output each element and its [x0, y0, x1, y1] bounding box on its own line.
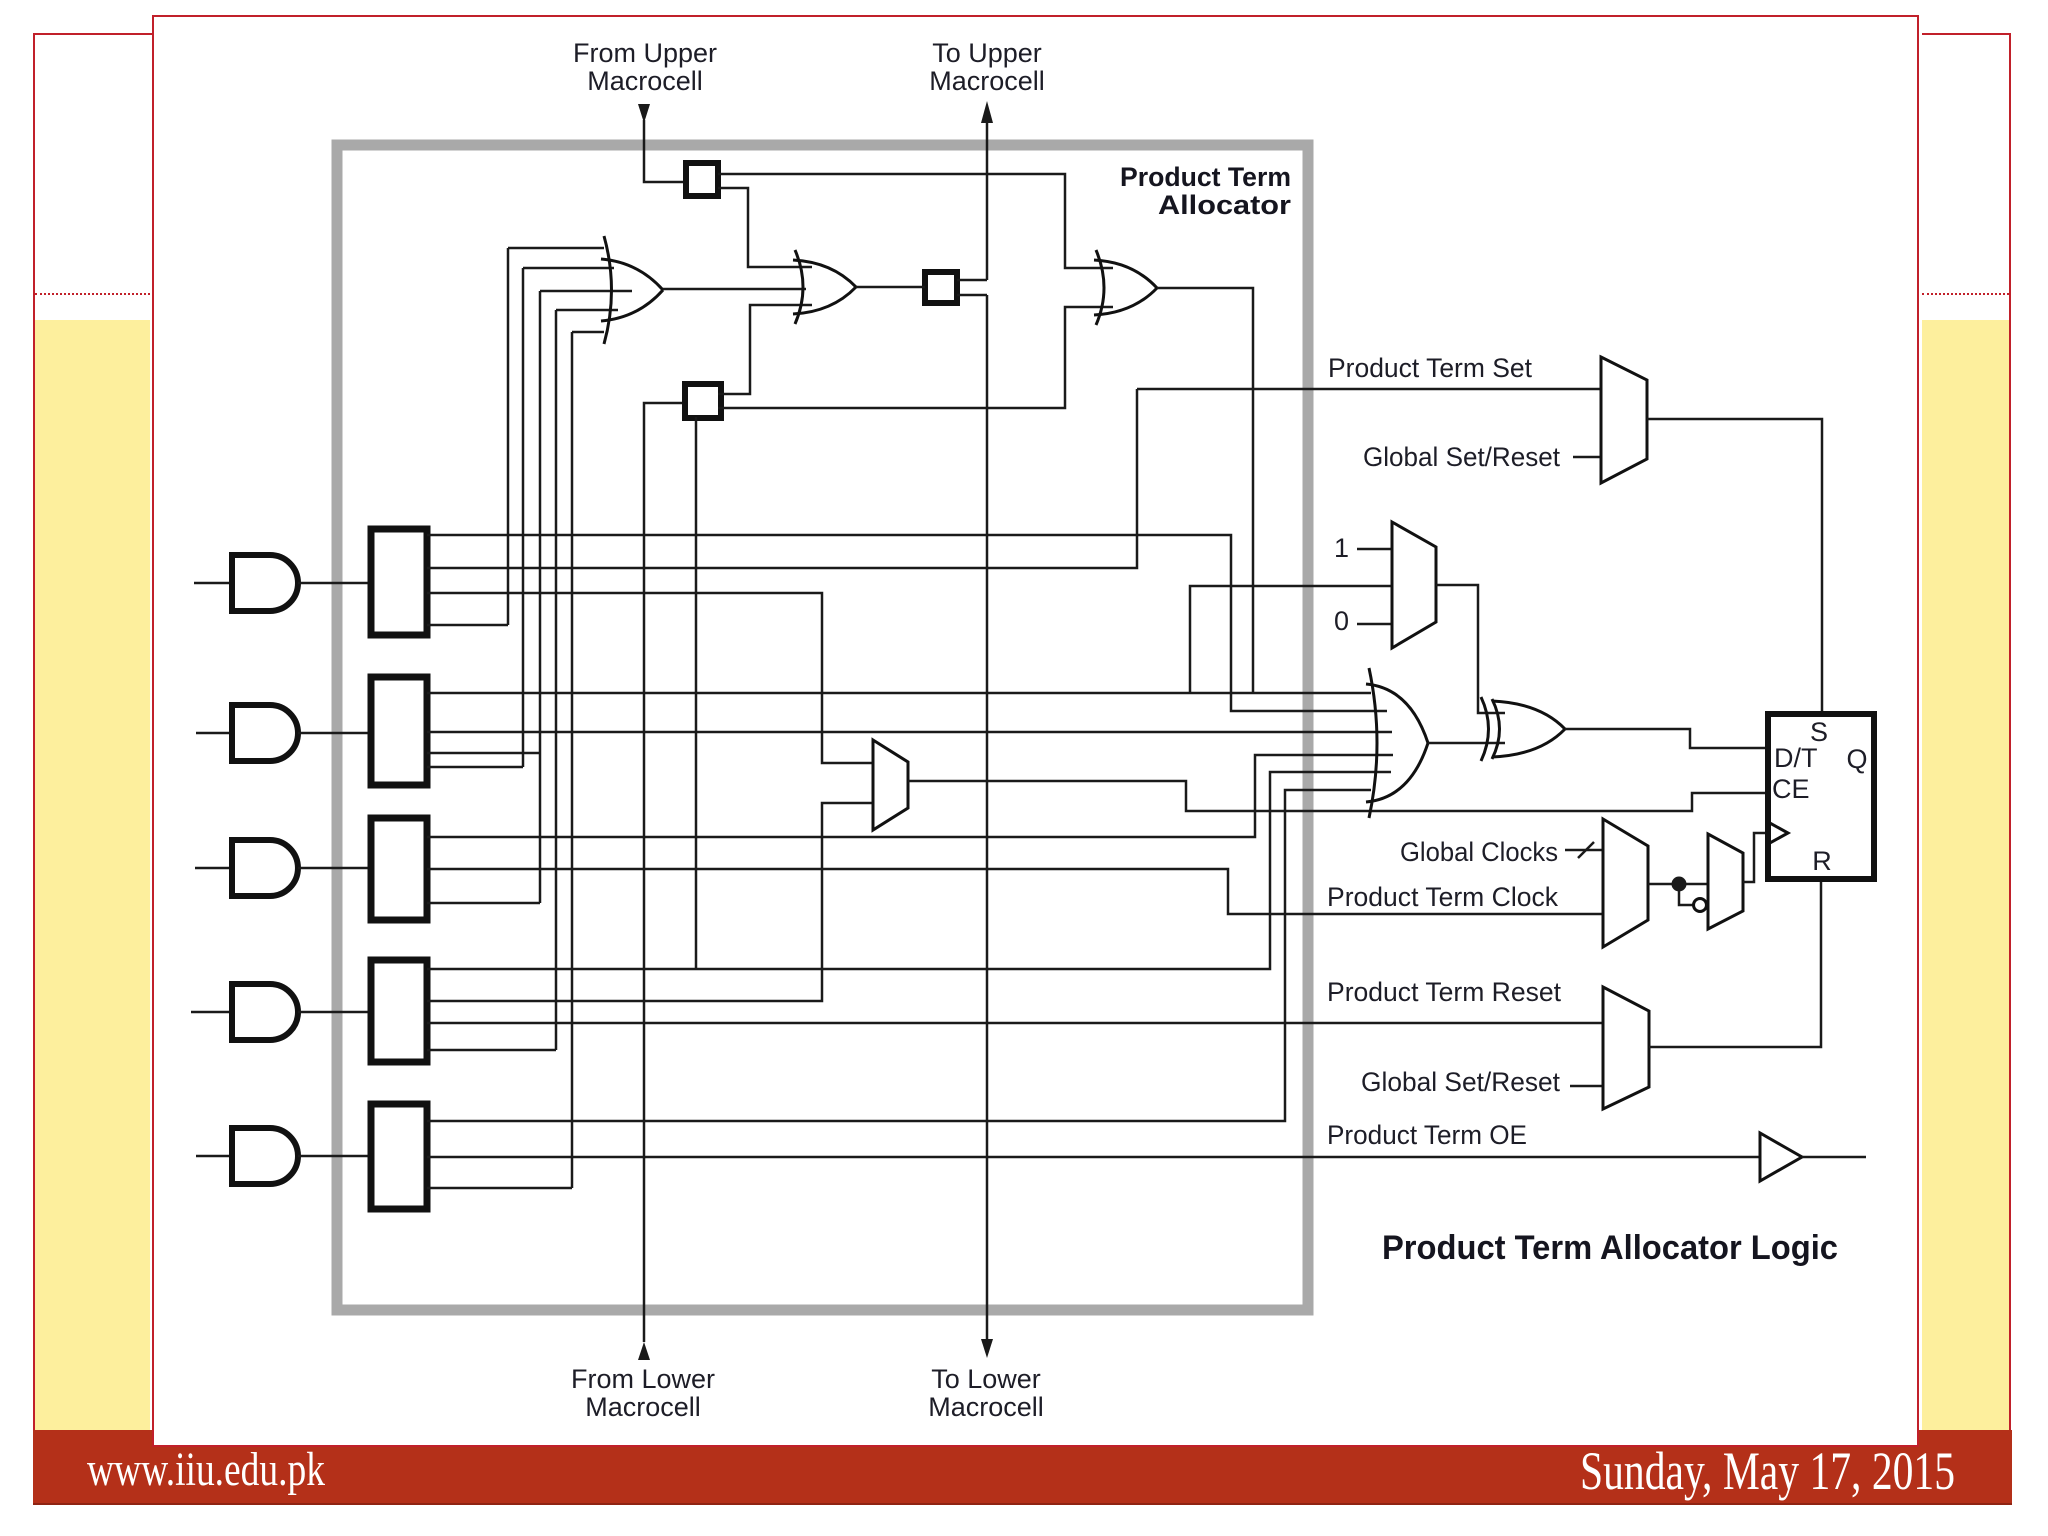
- caption Product Term Allocator Logic: [1382, 1229, 1838, 1267]
- wire OR1 output to OR2: [663, 288, 806, 291]
- mux M2 one-zero mux: [1392, 522, 1436, 648]
- wire A1 to SB1: [298, 582, 371, 585]
- svg-text:From Upper: From Upper: [573, 38, 717, 68]
- wire constant 0 to mux M2: [1357, 623, 1392, 626]
- wire SB1 out4 to bus B1: [427, 624, 508, 627]
- pin label R: [1812, 846, 1832, 876]
- node From Lower Macrocell arrow: [638, 1342, 650, 1360]
- svg-text:R: R: [1812, 846, 1832, 876]
- mux M6 clock polarity mux: [1708, 834, 1743, 929]
- wire M4 output to mux M6: [1648, 883, 1708, 886]
- product term allocator grey box: [337, 145, 1308, 1310]
- wire SB1 out2 to product term set: [427, 389, 1137, 568]
- wire SB4 out3 product term reset: [427, 1022, 1603, 1025]
- svg-text:Macrocell: Macrocell: [928, 1392, 1044, 1422]
- fuse F2: [685, 384, 721, 418]
- wire SB4 out2 to mux M3 bottom input: [427, 803, 873, 1001]
- net label Product Term OE: [1327, 1120, 1527, 1150]
- net label Global Set/Reset upper: [1363, 442, 1560, 472]
- svg-text:To Lower: To Lower: [931, 1364, 1041, 1394]
- svg-text:D/T: D/T: [1774, 743, 1818, 773]
- net label constant 0: [1334, 606, 1349, 636]
- node To Upper Macrocell arrow: [981, 101, 993, 123]
- switchbox SB4: [371, 960, 427, 1062]
- wire M1 output to FF S input: [1647, 419, 1822, 714]
- wire SB5 out2 product term OE: [427, 1156, 1760, 1159]
- svg-text:1: 1: [1334, 533, 1349, 563]
- fuse F3: [925, 272, 957, 303]
- FF1 clock chevron: [1768, 822, 1788, 844]
- left sidebar dotted divider: [35, 293, 150, 295]
- wire constant 1 to mux M2: [1357, 548, 1392, 551]
- inverter bubble: [1694, 899, 1707, 912]
- bus slash on global clocks wire: [1578, 842, 1594, 858]
- or gate OR4: [1366, 668, 1428, 818]
- svg-text:Product Term Set: Product Term Set: [1328, 353, 1532, 383]
- wire F3 stubs to trunk: [957, 280, 987, 295]
- wire F2 top stub to OR2 bottom input: [718, 305, 812, 394]
- mux M3 foldback mux: [873, 740, 908, 830]
- net label Product Term Clock: [1327, 882, 1558, 912]
- net label Global Set/Reset lower: [1361, 1067, 1560, 1097]
- wire OR1 input 3: [540, 290, 632, 293]
- svg-text:0: 0: [1334, 606, 1349, 636]
- and gate A1 input wire: [194, 582, 232, 585]
- net label Product Term Set: [1328, 353, 1532, 383]
- switchbox SB5: [371, 1104, 427, 1209]
- wire X1 output to FF D/T input: [1565, 729, 1768, 748]
- footer red bar right tall segment: [1917, 1430, 2012, 1503]
- svg-text:CE: CE: [1772, 774, 1810, 804]
- svg-text:Product Term Allocator Logic: Product Term Allocator Logic: [1382, 1229, 1838, 1267]
- wire from-upper vertical into fuse F1: [644, 120, 686, 182]
- wire SB3 out1 to OR4 input 4: [427, 755, 1393, 837]
- label Product Term Allocator title: [1120, 162, 1292, 220]
- wire F2 bottom stub to OR3 lower input: [718, 307, 1113, 408]
- wire SB5 out1 to OR4 input 6: [427, 790, 1371, 1121]
- wire OR1 input 5: [572, 331, 604, 334]
- wire SB2 out3 to bus B3: [427, 752, 540, 755]
- svg-text:Product Term Reset: Product Term Reset: [1327, 977, 1561, 1007]
- and gate A3: [232, 840, 298, 896]
- wire mux M2 select branch: [1190, 586, 1392, 693]
- svg-text:Global Set/Reset: Global Set/Reset: [1361, 1067, 1560, 1097]
- right sidebar yellow fill: [1922, 320, 2009, 1432]
- svg-text:Product Term: Product Term: [1120, 162, 1291, 192]
- svg-text:Global Set/Reset: Global Set/Reset: [1363, 442, 1560, 472]
- left sidebar panel: [33, 33, 152, 1447]
- pin label CE: [1772, 774, 1810, 804]
- label To Lower Macrocell: [928, 1364, 1044, 1422]
- or gate OR3: [1094, 250, 1157, 325]
- and gate A2: [232, 705, 298, 761]
- and gate A3 input wire: [195, 867, 232, 870]
- wire product term set to mux M1: [1137, 388, 1601, 391]
- buffer B1 product term OE: [1760, 1133, 1802, 1181]
- switchbox SB2: [371, 677, 427, 785]
- switchbox SB3: [371, 818, 427, 920]
- left sidebar yellow fill: [35, 320, 150, 1430]
- and gate A1: [232, 555, 298, 611]
- and gate A4: [232, 984, 298, 1040]
- label From Upper Macrocell: [573, 38, 717, 96]
- wire OR4 output to XOR bottom input: [1428, 742, 1505, 745]
- svg-text:Allocator: Allocator: [1158, 190, 1292, 220]
- wire OR1 input 4: [556, 309, 618, 312]
- pin label S: [1810, 717, 1828, 747]
- or gate OR1: [601, 236, 663, 344]
- footer date text: [1580, 1441, 1955, 1501]
- mux M4 clock mux: [1603, 819, 1648, 947]
- wire bus B2 vertical: [522, 268, 525, 767]
- and gate A2 input wire: [196, 732, 232, 735]
- wire A3 to SB3: [298, 867, 371, 870]
- net label constant 1: [1334, 533, 1349, 563]
- pin label Q: [1846, 744, 1867, 774]
- wire A5 to SB5: [298, 1155, 371, 1158]
- wire bubble to mux M6: [1706, 904, 1708, 907]
- wire M6 output to FF clock: [1743, 833, 1768, 882]
- or gate OR2: [793, 250, 856, 324]
- wire OR1 input 2: [523, 267, 614, 270]
- and gate A5 input wire: [196, 1155, 232, 1158]
- footer red bar left tall segment: [33, 1430, 152, 1503]
- wire F1 top stub to OR3 riser: [718, 174, 1113, 268]
- label From Lower Macrocell: [571, 1364, 715, 1422]
- wire M3 output to FF CE input: [908, 781, 1768, 811]
- wire SB5 out3 to bus B5: [427, 1187, 572, 1190]
- wire SB4 out1 to OR4 input 5: [427, 772, 1391, 969]
- wire to-upper / to-lower vertical trunk: [986, 121, 989, 1340]
- footer url text: [87, 1443, 325, 1496]
- svg-text:Q: Q: [1846, 744, 1867, 774]
- svg-text:From Lower: From Lower: [571, 1364, 715, 1394]
- switchbox SB1: [371, 529, 427, 635]
- mux M5 reset mux: [1603, 987, 1649, 1109]
- wire SB1 out3 to mux M3 top input: [427, 593, 873, 763]
- wire product term reset to mux M5: [1570, 1085, 1603, 1088]
- flip-flop FF1: [1768, 714, 1874, 879]
- wire SB3 out3 to bus B3: [427, 902, 540, 905]
- xor gate X1: [1481, 697, 1565, 761]
- wire inverted clock branch: [1679, 884, 1693, 905]
- wire A4 to SB4: [298, 1011, 371, 1014]
- right sidebar dotted divider: [1922, 293, 2009, 295]
- wire A2 to SB2: [298, 732, 371, 735]
- svg-text:Macrocell: Macrocell: [929, 66, 1045, 96]
- node To Lower Macrocell arrow: [981, 1339, 993, 1358]
- wire SB3 out2 to product term clock mux: [427, 869, 1603, 914]
- wire SB1 out1 to OR4 input 2: [427, 535, 1387, 711]
- wire F1 bottom stub to OR2 top input: [718, 188, 812, 267]
- svg-text:Product Term Clock: Product Term Clock: [1327, 882, 1558, 912]
- wire bus B5 vertical: [571, 332, 574, 1188]
- svg-text:Global Clocks: Global Clocks: [1400, 837, 1558, 867]
- wire SB4 out4 to bus B4: [427, 1049, 556, 1052]
- wire OR3 output drop to OR4 input 1: [1157, 288, 1253, 693]
- wire OR2 output to fuse F3: [856, 286, 925, 289]
- footer red bar: [33, 1445, 2012, 1505]
- node From Upper Macrocell arrow: [638, 104, 650, 123]
- wire bus B1 vertical: [507, 248, 510, 625]
- fuse F1: [686, 163, 718, 196]
- wire SB2 out1 to OR4 input 1: [427, 692, 1371, 695]
- wire global clocks to mux M4: [1565, 849, 1603, 852]
- svg-text:Product Term OE: Product Term OE: [1327, 1120, 1527, 1150]
- pin label D/T: [1774, 743, 1818, 773]
- wire M2 output to XOR top input: [1436, 585, 1505, 713]
- wire F2 drop to SB4 row: [695, 417, 698, 969]
- wire bus B3 vertical: [539, 291, 542, 903]
- net label Global Clocks: [1400, 837, 1558, 867]
- label To Upper Macrocell: [929, 38, 1045, 96]
- and gate A5: [232, 1128, 298, 1184]
- wire global set/reset to mux M1: [1573, 456, 1601, 459]
- wire B1 output: [1802, 1156, 1866, 1159]
- wire bus B4 vertical: [555, 310, 558, 1050]
- mux M1 set mux: [1601, 357, 1647, 483]
- net label Product Term Reset: [1327, 977, 1561, 1007]
- wire from-lower vertical from fuse F2: [644, 403, 686, 1342]
- wire SB2 out4 to bus B2: [427, 766, 523, 769]
- svg-text:Macrocell: Macrocell: [585, 1392, 701, 1422]
- svg-text:To Upper: To Upper: [932, 38, 1042, 68]
- wire OR1 input 1: [508, 247, 604, 250]
- junction dot clock: [1672, 877, 1687, 892]
- wire SB2 out2 to OR4 input 3: [427, 731, 1392, 734]
- wire M5 output to FF R input: [1649, 879, 1821, 1047]
- and gate A4 input wire: [191, 1011, 232, 1014]
- svg-text:Macrocell: Macrocell: [587, 66, 703, 96]
- right sidebar panel: [1922, 33, 2011, 1447]
